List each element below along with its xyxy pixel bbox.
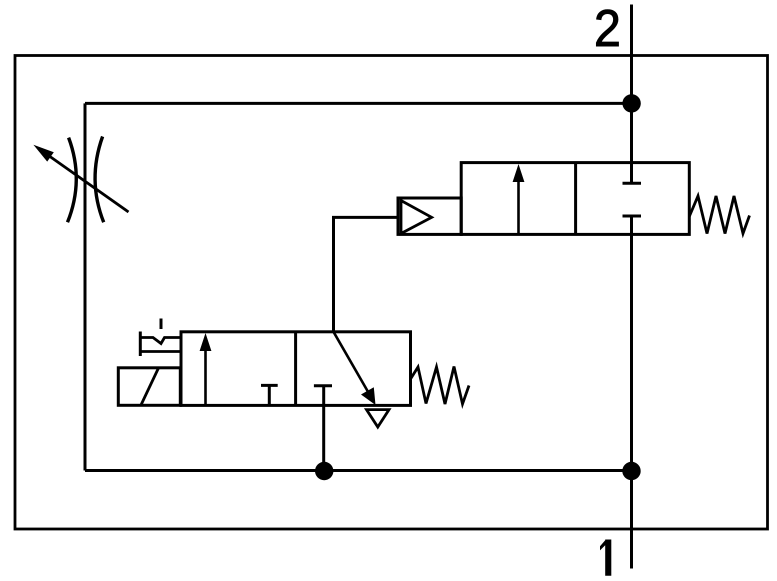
junction node top right bbox=[622, 94, 640, 112]
valve V2 exhaust path diagonal arrow (right box) bbox=[334, 332, 376, 405]
wire: pilot line to valve V1 bbox=[334, 217, 399, 331]
valve V2 solenoid coil bbox=[118, 368, 180, 406]
valve V1 blocked port bottom (right box) bbox=[623, 215, 642, 218]
flow control valve F1 (adjustable throttle) bbox=[33, 137, 128, 223]
wire: inner loop top horizontal bbox=[85, 102, 632, 105]
valve V1 pilot head bbox=[398, 198, 461, 234]
wire: inner loop left vertical bbox=[84, 103, 87, 470]
wire: inner loop bottom horizontal bbox=[85, 469, 632, 472]
valve V2 flow path arrow (left box) bbox=[200, 333, 212, 405]
valve V2 blocked port (left box) bbox=[261, 385, 278, 405]
valve V2 return spring bbox=[411, 367, 470, 405]
port 1 label bbox=[600, 540, 611, 576]
wire: main vertical line valve V1 to port 1 bbox=[630, 217, 633, 569]
wire: main vertical line port 2 to valve V1 bbox=[630, 5, 633, 163]
svg-text:2: 2 bbox=[594, 0, 621, 57]
valve V1 blocked port top (right box) bbox=[623, 163, 642, 184]
valve V1 (2/2 way, pilot operated) body bbox=[461, 163, 689, 235]
valve V1 flow path arrow (left box) bbox=[513, 164, 525, 233]
enclosure border bbox=[15, 56, 768, 530]
valve V2 port 1 (right box, blocked T) bbox=[314, 384, 332, 387]
junction node bottom right bbox=[622, 462, 640, 480]
valve V2 manual override (detent) bbox=[140, 319, 180, 357]
port 2 label bbox=[594, 0, 621, 57]
valve V2 (3/2 way, solenoid operated) body bbox=[181, 332, 411, 406]
valve V1 return spring bbox=[689, 196, 749, 234]
junction node bottom middle bbox=[315, 462, 333, 480]
wire: valve V2 port 1 down to bottom rail bbox=[322, 386, 325, 471]
valve V2 exhaust outlet triangle bbox=[367, 410, 390, 427]
